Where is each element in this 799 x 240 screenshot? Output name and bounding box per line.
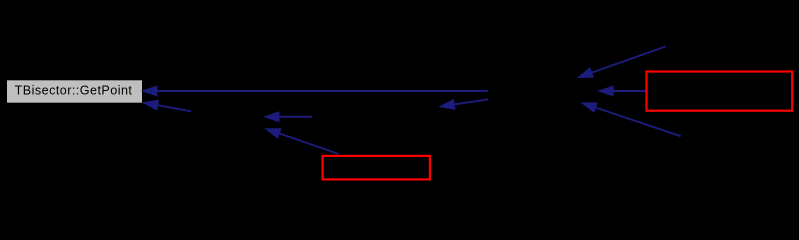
edge E8: invisible bottom-right node -> invisible mid node (diagonal) <box>582 103 681 136</box>
edge E1: invisible mid node -> TBisector::GetPoint (long horizontal) <box>142 86 487 96</box>
node TBisector::GetPoint (current node, grey fill) <box>7 80 143 103</box>
edge E6: invisible top-right node -> invisible mid node (diagonal) <box>578 47 666 78</box>
edge E7: red node R1 -> invisible mid node (horizontal) <box>599 86 646 96</box>
node R2: truncated caller node (red border, invisible text) <box>323 156 430 180</box>
edge E2: invisible lower node -> TBisector::GetPoint (short diagonal) <box>143 100 191 111</box>
edge E4: red node R2 -> invisible lower node (diagonal) <box>266 129 339 154</box>
svg-text:TBisector::GetPoint: TBisector::GetPoint <box>15 83 133 97</box>
edge E3: invisible node -> invisible lower node (short horizontal) <box>265 112 313 122</box>
node R1: truncated caller node (red border, invisible text) <box>647 72 793 111</box>
edge E5: invisible mid node -> invisible node (diagonal) <box>440 99 488 109</box>
